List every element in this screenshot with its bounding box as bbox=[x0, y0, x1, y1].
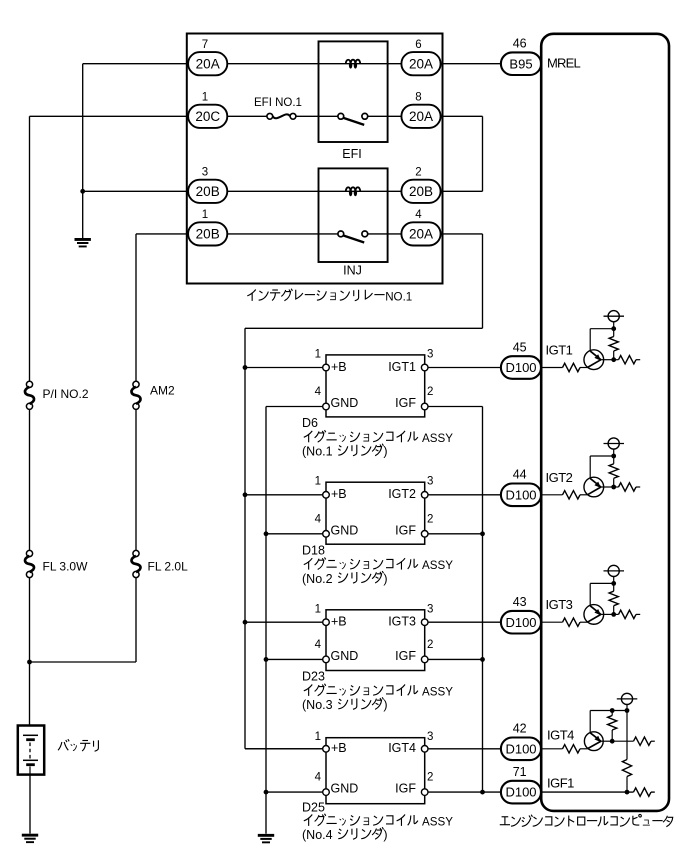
svg-text:43: 43 bbox=[513, 595, 527, 609]
svg-text:3: 3 bbox=[427, 731, 433, 743]
svg-text:AM2: AM2 bbox=[150, 384, 175, 398]
svg-text:45: 45 bbox=[513, 340, 527, 354]
svg-text:20A: 20A bbox=[196, 56, 220, 71]
svg-text:(No.2: (No.2 bbox=[302, 572, 333, 586]
svg-text:IGF1: IGF1 bbox=[547, 775, 574, 790]
svg-text:20B: 20B bbox=[196, 227, 220, 242]
svg-text:+B: +B bbox=[331, 487, 347, 501]
svg-text:1: 1 bbox=[202, 209, 208, 221]
svg-text:3: 3 bbox=[202, 167, 208, 179]
svg-text:IGF: IGF bbox=[395, 782, 416, 796]
svg-text:4: 4 bbox=[315, 513, 322, 525]
svg-text:MREL: MREL bbox=[547, 56, 580, 71]
svg-text:(No.1: (No.1 bbox=[302, 445, 333, 459]
svg-text:ASSY: ASSY bbox=[422, 559, 453, 572]
svg-text:FL 2.0L: FL 2.0L bbox=[148, 560, 189, 574]
svg-text:IGT4: IGT4 bbox=[547, 728, 574, 743]
svg-text:2: 2 bbox=[427, 513, 433, 525]
svg-text:GND: GND bbox=[331, 523, 359, 537]
svg-text:20C: 20C bbox=[195, 109, 220, 124]
svg-text:IGT1: IGT1 bbox=[388, 360, 416, 374]
svg-text:4: 4 bbox=[415, 209, 422, 221]
svg-text:20A: 20A bbox=[409, 56, 433, 71]
svg-text:D18: D18 bbox=[302, 543, 325, 557]
svg-text:(No.3: (No.3 bbox=[302, 698, 333, 712]
svg-text:3: 3 bbox=[427, 348, 433, 360]
svg-text:6: 6 bbox=[415, 39, 421, 51]
svg-text:+B: +B bbox=[331, 741, 347, 755]
svg-text:1: 1 bbox=[315, 603, 321, 615]
svg-text:46: 46 bbox=[513, 36, 527, 50]
svg-text:2: 2 bbox=[427, 639, 433, 651]
svg-text:8: 8 bbox=[415, 92, 421, 104]
svg-text:D23: D23 bbox=[302, 670, 325, 684]
svg-text:INJ: INJ bbox=[343, 263, 362, 277]
svg-text:FL 3.0W: FL 3.0W bbox=[43, 560, 89, 574]
svg-text:D100: D100 bbox=[505, 615, 536, 630]
svg-text:D100: D100 bbox=[505, 741, 536, 756]
svg-text:IGT4: IGT4 bbox=[388, 741, 416, 755]
svg-text:EFI: EFI bbox=[342, 147, 361, 161]
svg-text:D100: D100 bbox=[505, 487, 536, 502]
svg-text:1: 1 bbox=[202, 92, 208, 104]
svg-text:D6: D6 bbox=[302, 416, 318, 430]
svg-text:ASSY: ASSY bbox=[422, 432, 453, 445]
svg-text:IGT2: IGT2 bbox=[388, 487, 416, 501]
svg-text:GND: GND bbox=[331, 782, 359, 796]
svg-text:+B: +B bbox=[331, 360, 347, 374]
svg-text:(No.4: (No.4 bbox=[302, 828, 333, 842]
svg-text:GND: GND bbox=[331, 649, 359, 663]
svg-text:4: 4 bbox=[315, 772, 322, 784]
svg-text:1: 1 bbox=[315, 731, 321, 743]
svg-text:IGT3: IGT3 bbox=[546, 597, 573, 612]
svg-text:20A: 20A bbox=[409, 109, 433, 124]
svg-text:): ) bbox=[383, 698, 387, 712]
svg-text:4: 4 bbox=[315, 639, 322, 651]
svg-text:B95: B95 bbox=[509, 56, 532, 71]
svg-text:1: 1 bbox=[315, 348, 321, 360]
svg-text:71: 71 bbox=[513, 765, 527, 779]
svg-text:D100: D100 bbox=[505, 785, 536, 800]
svg-text:IGF: IGF bbox=[395, 523, 416, 537]
svg-text:7: 7 bbox=[202, 39, 208, 51]
svg-text:): ) bbox=[383, 828, 387, 842]
svg-text:2: 2 bbox=[427, 386, 433, 398]
svg-text:ASSY: ASSY bbox=[422, 816, 453, 829]
svg-text:GND: GND bbox=[331, 396, 359, 410]
svg-text:IGT2: IGT2 bbox=[546, 470, 573, 485]
svg-text:20B: 20B bbox=[196, 184, 220, 199]
svg-text:): ) bbox=[383, 445, 387, 459]
svg-text:20B: 20B bbox=[409, 184, 433, 199]
svg-text:IGF: IGF bbox=[395, 396, 416, 410]
svg-text:EFI NO.1: EFI NO.1 bbox=[254, 97, 302, 109]
svg-text:D25: D25 bbox=[302, 801, 325, 815]
svg-text:IGT3: IGT3 bbox=[388, 615, 416, 629]
svg-text:44: 44 bbox=[513, 468, 527, 482]
svg-text:IGF: IGF bbox=[395, 649, 416, 663]
svg-text:1: 1 bbox=[315, 476, 321, 488]
svg-text:42: 42 bbox=[513, 722, 527, 736]
svg-text:): ) bbox=[383, 572, 387, 586]
svg-text:2: 2 bbox=[427, 772, 433, 784]
svg-text:4: 4 bbox=[315, 386, 322, 398]
svg-text:+B: +B bbox=[331, 615, 347, 629]
svg-text:D100: D100 bbox=[505, 360, 536, 375]
svg-text:3: 3 bbox=[427, 603, 433, 615]
svg-text:NO.1: NO.1 bbox=[385, 291, 412, 304]
svg-text:IGT1: IGT1 bbox=[546, 343, 573, 358]
svg-text:2: 2 bbox=[415, 167, 421, 179]
svg-text:20A: 20A bbox=[409, 227, 433, 242]
svg-text:3: 3 bbox=[427, 476, 433, 488]
svg-text:ASSY: ASSY bbox=[422, 686, 453, 699]
svg-text:P/I NO.2: P/I NO.2 bbox=[43, 387, 89, 401]
